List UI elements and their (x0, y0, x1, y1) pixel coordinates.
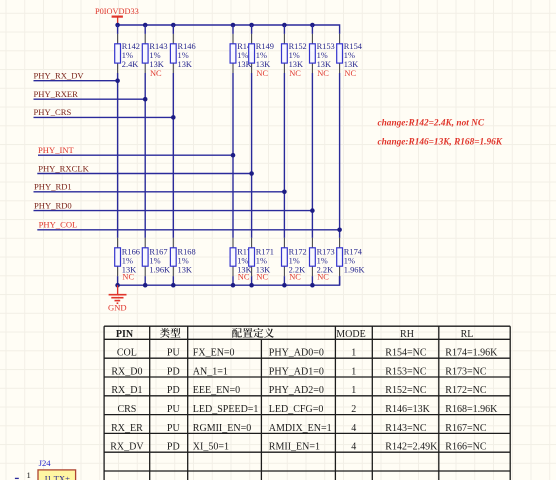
svg-text:1%: 1% (178, 51, 189, 60)
resistor R152 (282, 42, 307, 78)
svg-text:R153=NC: R153=NC (385, 366, 427, 377)
svg-text:2: 2 (351, 404, 356, 415)
table header 类型 (160, 328, 180, 338)
svg-text:LED_CFG=0: LED_CFG=0 (269, 404, 324, 415)
svg-text:4: 4 (351, 442, 356, 453)
table row RX_ER (111, 423, 487, 434)
svg-text:R142=2.49K: R142=2.49K (385, 442, 438, 453)
svg-text:AMDIX_EN=1: AMDIX_EN=1 (269, 423, 332, 434)
svg-text:RX_D1: RX_D1 (111, 385, 142, 396)
svg-text:RL: RL (461, 329, 474, 340)
svg-text:PU: PU (167, 348, 181, 359)
svg-text:1.96K: 1.96K (149, 266, 170, 275)
svg-text:1%: 1% (256, 257, 267, 266)
svg-text:NC: NC (344, 69, 356, 78)
wire stub pin 1 (15, 477, 19, 479)
svg-text:R168=1.96K: R168=1.96K (445, 404, 498, 415)
power port P0IOVDD33 (95, 7, 139, 25)
svg-text:R154=NC: R154=NC (385, 348, 427, 359)
svg-text:NC: NC (317, 69, 329, 78)
svg-text:R142: R142 (122, 42, 140, 51)
resistor R168 (170, 248, 195, 275)
resistor R167 (142, 248, 170, 275)
junction PHY_COL (337, 228, 342, 233)
resistor R166 (115, 248, 140, 282)
svg-text:NC: NC (256, 69, 268, 78)
svg-text:1%: 1% (237, 51, 248, 60)
resistor R153 (310, 42, 335, 78)
svg-text:NC: NC (150, 69, 162, 78)
svg-text:J1 TX+: J1 TX+ (44, 474, 70, 480)
junction on GND bus (231, 283, 236, 288)
svg-text:PHY_RD0: PHY_RD0 (34, 200, 72, 210)
junction on VDD bus (249, 23, 254, 28)
svg-text:1%: 1% (344, 257, 355, 266)
svg-text:13K: 13K (178, 60, 192, 69)
svg-text:4: 4 (351, 423, 356, 434)
pins R173 (311, 238, 313, 276)
svg-text:COL: COL (117, 348, 137, 359)
resistor R173 (310, 248, 335, 282)
wire net PHY_RX_DV (34, 80, 118, 82)
junction on GND bus (115, 283, 120, 288)
svg-text:1%: 1% (149, 51, 160, 60)
pins R149 (251, 34, 253, 73)
junction PHY_INT (231, 153, 236, 158)
svg-text:R174=1.96K: R174=1.96K (445, 348, 498, 359)
svg-text:PHY_RD1: PHY_RD1 (34, 182, 72, 192)
svg-text:R143=NC: R143=NC (385, 423, 427, 434)
pins R172 (283, 238, 285, 276)
svg-text:1%: 1% (317, 257, 328, 266)
svg-text:13K: 13K (178, 266, 192, 275)
svg-text:PU: PU (167, 423, 181, 434)
svg-text:J24: J24 (39, 458, 52, 468)
svg-text:1%: 1% (122, 51, 133, 60)
junction on VDD bus (171, 23, 176, 28)
svg-text:RX_DV: RX_DV (110, 442, 144, 453)
svg-text:NC: NC (122, 273, 134, 282)
svg-text:RH: RH (400, 329, 414, 340)
svg-text:1: 1 (351, 366, 356, 377)
svg-text:R146: R146 (178, 42, 196, 51)
svg-text:R152=NC: R152=NC (385, 385, 427, 396)
svg-text:PHY_CRS: PHY_CRS (34, 107, 72, 117)
svg-text:1%: 1% (289, 51, 300, 60)
svg-text:1%: 1% (289, 257, 300, 266)
svg-text:LED_SPEED=1: LED_SPEED=1 (193, 404, 259, 415)
pins R166 (117, 238, 119, 276)
svg-text:R143: R143 (149, 42, 167, 51)
svg-text:1%: 1% (178, 257, 189, 266)
svg-text:1%: 1% (149, 257, 160, 266)
svg-text:MODE: MODE (336, 329, 365, 340)
svg-text:PIN: PIN (116, 329, 134, 340)
svg-text:change:R142=2.4K, not NC: change:R142=2.4K, not NC (378, 118, 485, 128)
junction on VDD bus (282, 23, 287, 28)
junction on GND bus (171, 283, 176, 288)
resistor R146 (170, 42, 195, 69)
pins R143 (144, 34, 146, 73)
resistor R172 (282, 248, 307, 282)
svg-text:R149: R149 (256, 42, 274, 51)
wire column R146/R168 (172, 25, 174, 285)
wire net PHY_COL (37, 229, 339, 231)
pins R170 (232, 238, 234, 276)
resistor R174 (337, 248, 365, 275)
svg-text:RMII_EN=1: RMII_EN=1 (269, 442, 320, 453)
svg-text:PU: PU (167, 404, 181, 415)
table header 配置定义 (232, 328, 274, 338)
svg-text:NC: NC (317, 273, 329, 282)
svg-text:PD: PD (167, 442, 180, 453)
svg-text:PD: PD (167, 385, 180, 396)
pins R167 (144, 238, 146, 276)
wire column R153/R173 (311, 25, 313, 285)
svg-text:change:R146=13K, R168=1.96K: change:R146=13K, R168=1.96K (378, 138, 503, 148)
table config table grid (104, 326, 510, 480)
svg-text:R154: R154 (344, 42, 363, 51)
svg-text:P0IOVDD33: P0IOVDD33 (95, 7, 139, 16)
svg-text:1%: 1% (256, 51, 267, 60)
pins R171 (251, 238, 253, 276)
svg-text:R146=13K: R146=13K (385, 404, 430, 415)
wire column R142/R166 (117, 25, 119, 285)
svg-text:PHY_AD2=0: PHY_AD2=0 (269, 385, 324, 396)
svg-text:PHY_AD0=0: PHY_AD0=0 (269, 348, 324, 359)
svg-text:1: 1 (27, 470, 31, 480)
svg-text:NC: NC (238, 273, 250, 282)
table row RX_DV (110, 442, 487, 453)
junction PHY_RX_DV (115, 78, 120, 83)
junction on VDD bus (143, 23, 148, 28)
junction on GND bus (282, 283, 287, 288)
wire GND bottom bus (118, 276, 340, 285)
resistor R148 (230, 42, 255, 69)
junction on GND bus (310, 283, 315, 288)
svg-text:GND: GND (108, 302, 127, 312)
svg-text:RGMII_EN=0: RGMII_EN=0 (193, 423, 251, 434)
junction PHY_RD0 (310, 208, 315, 213)
table row CRS (117, 404, 498, 415)
connector J24 body (38, 470, 76, 480)
wire column R149/R171 (251, 25, 253, 285)
svg-text:1%: 1% (317, 51, 328, 60)
svg-text:PHY_RXER: PHY_RXER (34, 89, 79, 99)
pins R142 (117, 34, 119, 73)
svg-text:R168: R168 (178, 248, 196, 257)
junction on VDD bus (115, 23, 120, 28)
svg-text:R173=NC: R173=NC (445, 366, 487, 377)
svg-text:RX_ER: RX_ER (111, 423, 143, 434)
junction on VDD bus (310, 23, 315, 28)
svg-text:2.4K: 2.4K (122, 60, 139, 69)
resistor R171 (249, 248, 274, 282)
svg-text:1: 1 (351, 348, 356, 359)
junction on GND bus (143, 283, 148, 288)
svg-text:R171: R171 (256, 248, 274, 257)
svg-text:1%: 1% (122, 257, 133, 266)
svg-text:PHY_RX_DV: PHY_RX_DV (34, 71, 85, 81)
svg-text:FX_EN=0: FX_EN=0 (193, 348, 235, 359)
svg-text:PHY_AD1=0: PHY_AD1=0 (269, 366, 324, 377)
svg-text:1%: 1% (237, 257, 248, 266)
wire net PHY_RD0 (34, 210, 313, 212)
junction PHY_RXCLK (249, 171, 254, 176)
wire net PHY_INT (38, 154, 233, 156)
svg-text:XI_50=1: XI_50=1 (193, 442, 229, 453)
resistor R143 (142, 42, 167, 78)
svg-text:AN_1=1: AN_1=1 (193, 366, 228, 377)
wire column R148/R170 (232, 25, 234, 285)
wire net PHY_RD1 (34, 191, 285, 193)
svg-text:PHY_INT: PHY_INT (38, 145, 75, 155)
wire net PHY_RXCLK (37, 173, 251, 175)
svg-text:R172: R172 (289, 248, 307, 257)
table row RX_D0 (111, 366, 486, 377)
resistor R170 (230, 248, 255, 282)
pins R153 (311, 34, 313, 73)
pins R168 (172, 238, 174, 276)
table row RX_D1 (111, 385, 486, 396)
ground GND (108, 285, 127, 312)
svg-text:R173: R173 (317, 248, 335, 257)
table row COL (117, 348, 498, 359)
svg-text:NC: NC (289, 273, 301, 282)
pins R152 (283, 34, 285, 73)
resistor R154 (337, 42, 363, 78)
svg-text:PHY_RXCLK: PHY_RXCLK (38, 163, 89, 173)
junction on GND bus (249, 283, 254, 288)
resistor R142 (115, 42, 140, 69)
svg-text:R166: R166 (122, 248, 140, 257)
junction PHY_RD1 (282, 190, 287, 195)
svg-text:R153: R153 (317, 42, 335, 51)
svg-text:RX_D0: RX_D0 (111, 366, 142, 377)
wire column R152/R172 (283, 25, 285, 285)
svg-text:R172=NC: R172=NC (445, 385, 487, 396)
svg-text:R167=NC: R167=NC (445, 423, 487, 434)
svg-text:R166=NC: R166=NC (445, 442, 487, 453)
svg-text:NC: NC (289, 69, 301, 78)
svg-text:1%: 1% (344, 51, 355, 60)
junction on VDD bus (231, 23, 236, 28)
pins R174 (339, 238, 341, 276)
wire column R143/R167 (144, 25, 146, 285)
svg-text:NC: NC (256, 273, 268, 282)
svg-text:R152: R152 (289, 42, 307, 51)
svg-text:CRS: CRS (117, 404, 136, 415)
svg-text:R167: R167 (149, 248, 167, 257)
pins R154 (339, 34, 341, 73)
pins R146 (172, 34, 174, 73)
wire column R154/R174 (339, 73, 341, 285)
svg-text:R174: R174 (344, 248, 363, 257)
wire VDD top bus (118, 25, 340, 34)
wire net PHY_CRS (34, 116, 174, 118)
svg-text:1.96K: 1.96K (344, 266, 365, 275)
svg-text:1: 1 (351, 385, 356, 396)
svg-text:EEE_EN=0: EEE_EN=0 (193, 385, 240, 396)
svg-text:PD: PD (167, 366, 180, 377)
junction PHY_CRS (171, 115, 176, 120)
wire net PHY_RXER (34, 98, 146, 100)
pins R148 (232, 34, 234, 73)
svg-text:PHY_COL: PHY_COL (39, 220, 78, 230)
junction PHY_RXER (143, 97, 148, 102)
resistor R149 (249, 42, 274, 78)
